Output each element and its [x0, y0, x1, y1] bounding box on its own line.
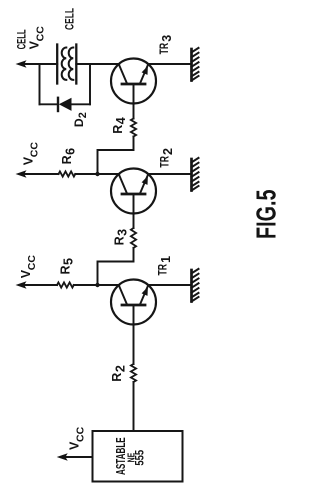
wire R6 to junction [75, 173, 97, 175]
wire R5 to junction [74, 284, 98, 286]
cell right plate [75, 45, 77, 84]
diode D2 cathode bar [57, 98, 59, 111]
wire VCC arrow shaft (R6 branch) [23, 173, 59, 175]
wire cell to TR3 collector [76, 63, 119, 65]
node junction TR2 collector [95, 172, 99, 176]
wire diode branch left vertical [39, 64, 41, 104]
cell coil squiggle left [62, 48, 67, 80]
wire diode branch right vertical [89, 64, 91, 104]
resistor R6 [59, 171, 76, 176]
resistor R3 [131, 228, 136, 248]
transistor TR1 [111, 280, 156, 365]
ground (TR3) [192, 48, 199, 81]
resistor R4 [131, 119, 136, 137]
transistor TR3 [111, 59, 156, 119]
wire VCC arrow shaft (555) [64, 456, 93, 458]
wire junction to TR2 collector [98, 173, 120, 175]
wire VCC supply arrow shaft (cell branch) [23, 63, 57, 65]
node VCC arrowhead (R6 branch) [16, 170, 27, 177]
ground (TR1) [192, 269, 199, 302]
wire diode branch bottom left [40, 103, 59, 105]
node VCC arrowhead (cell branch) [16, 60, 27, 67]
wire TR1 emitter to ground [148, 284, 191, 286]
node VCC arrowhead (555) [57, 453, 68, 460]
wire VCC arrow shaft (R5 branch) [23, 284, 57, 286]
wire diode branch bottom right [72, 103, 91, 105]
cell left plate [56, 45, 58, 84]
wire R2 to 555 box [133, 382, 135, 431]
resistor R2 [131, 364, 136, 382]
svg-text:FIG.5: FIG.5 [251, 190, 282, 240]
transistor TR2 [111, 169, 156, 229]
resistor R5 [57, 282, 74, 287]
wire R4 bottom L to junction [98, 137, 134, 175]
wire R3 bottom L to junction [98, 248, 134, 285]
wire TR3 emitter to ground [148, 63, 191, 65]
wire TR2 emitter to ground [148, 173, 191, 175]
box astable NE 555 [93, 431, 183, 482]
svg-text:CELL: CELL [63, 8, 77, 30]
diode D2 triangle [59, 98, 72, 111]
svg-text:555: 555 [135, 449, 147, 465]
node junction TR1 collector [95, 283, 99, 287]
ground (TR2) [192, 158, 199, 191]
cell coil squiggle right [69, 48, 74, 80]
node VCC arrowhead (R5 branch) [16, 281, 27, 288]
wire junction to TR1 collector [98, 284, 120, 286]
